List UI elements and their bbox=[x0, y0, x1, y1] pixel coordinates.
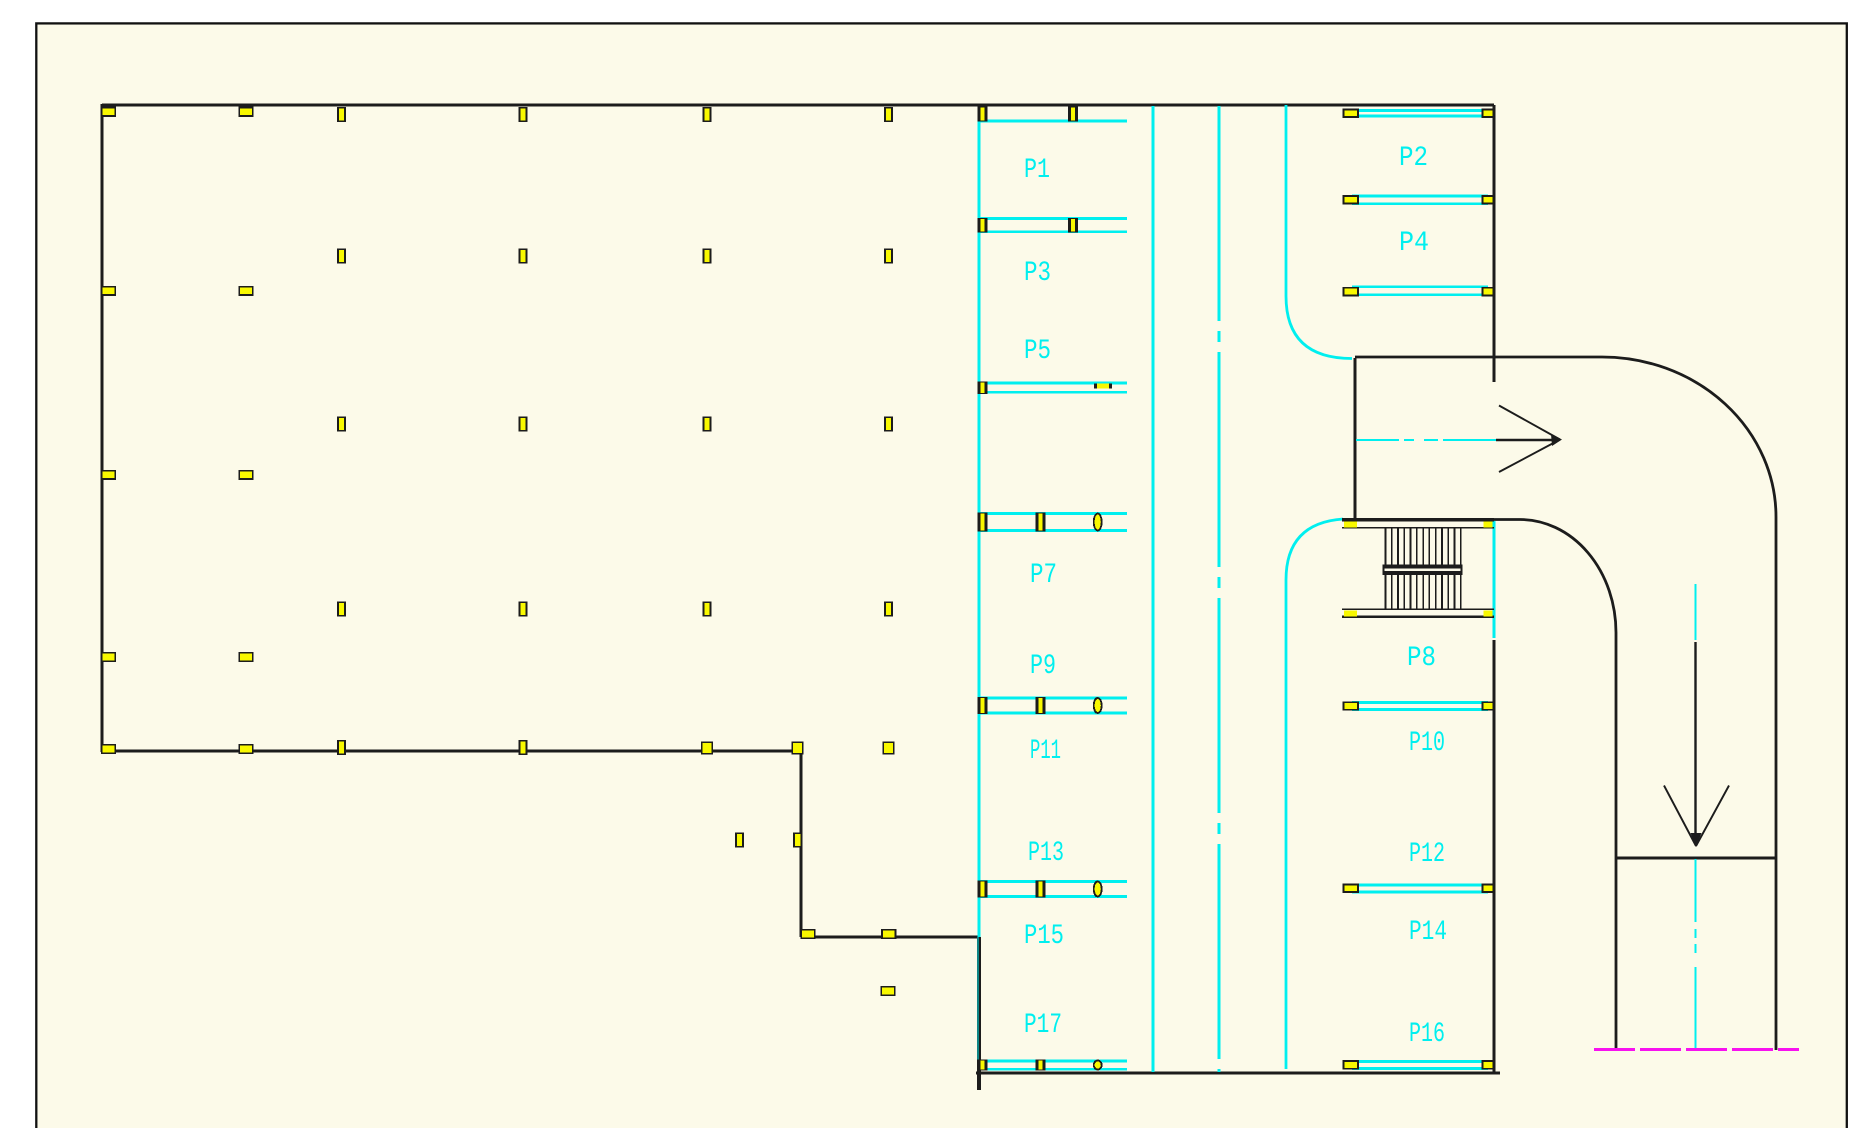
svg-text:P9: P9 bbox=[1030, 651, 1056, 682]
svg-text:P16: P16 bbox=[1409, 1019, 1445, 1050]
svg-text:P10: P10 bbox=[1409, 728, 1445, 759]
svg-text:P11: P11 bbox=[1030, 736, 1061, 767]
svg-text:P2: P2 bbox=[1399, 143, 1428, 174]
svg-text:P14: P14 bbox=[1409, 917, 1447, 948]
svg-text:P12: P12 bbox=[1409, 839, 1445, 870]
svg-text:P5: P5 bbox=[1024, 336, 1051, 367]
svg-text:P8: P8 bbox=[1407, 643, 1436, 674]
svg-text:P15: P15 bbox=[1024, 921, 1064, 952]
svg-text:P13: P13 bbox=[1028, 838, 1064, 869]
svg-text:P7: P7 bbox=[1030, 560, 1057, 591]
svg-text:P17: P17 bbox=[1024, 1010, 1062, 1041]
svg-text:P3: P3 bbox=[1024, 258, 1051, 289]
svg-text:P4: P4 bbox=[1399, 228, 1429, 259]
svg-text:P1: P1 bbox=[1024, 155, 1050, 186]
